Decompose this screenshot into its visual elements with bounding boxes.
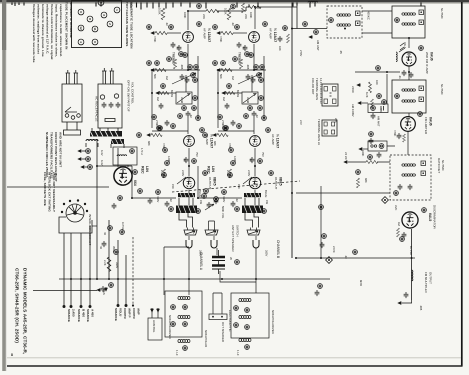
svg-text:VOLU: VOLU bbox=[119, 308, 123, 316]
svg-text:75V: 75V bbox=[195, 152, 199, 157]
tube V1 (12AX7 a) bbox=[183, 32, 194, 43]
svg-text:OUTPUT: OUTPUT bbox=[429, 272, 433, 284]
top cut-off coil bbox=[308, 1, 318, 2]
svg-text:Volume control minimum, no sig: Volume control minimum, no signal bbox=[50, 4, 54, 60]
filament cluster callouts bbox=[78, 149, 92, 170]
T3 top lead bbox=[420, 3, 422, 7]
svg-text:Voltages measured with vacuum: Voltages measured with vacuum tube bbox=[32, 4, 36, 63]
svg-text:capacitance in mfd. unless not: capacitance in mfd. unless noted. bbox=[59, 4, 63, 57]
svg-text:NON-POLAR: NON-POLAR bbox=[204, 330, 208, 347]
svg-text:1 LF: 1 LF bbox=[236, 350, 240, 356]
svg-text:40: 40 bbox=[103, 232, 107, 235]
interlock lead stubs bbox=[64, 122, 81, 135]
arrow bbox=[156, 92, 160, 95]
main tuner bus vertical bbox=[291, 3, 293, 259]
lower callouts bbox=[158, 126, 163, 131]
svg-text:SWITCH: SWITCH bbox=[236, 225, 240, 236]
filter bus vertical bbox=[108, 220, 110, 279]
interstage cap bbox=[184, 157, 189, 163]
svg-text:6: 6 bbox=[79, 11, 83, 13]
svg-text:B 450: B 450 bbox=[82, 309, 86, 317]
svg-text:ELECTROLYTIC: ELECTROLYTIC bbox=[228, 310, 232, 332]
output terminal strip bbox=[209, 314, 227, 320]
svg-text:OFF-ON SW PART OF: OFF-ON SW PART OF bbox=[127, 80, 131, 112]
rectifier callout bbox=[133, 170, 138, 175]
svg-text:SCHEMATIC DIAGRAM: SCHEMATIC DIAGRAM bbox=[69, 2, 73, 38]
cap bbox=[165, 120, 170, 126]
output transformer T1 (dark winding) bbox=[176, 193, 197, 228]
cathode resistor bbox=[162, 169, 165, 178]
grid wire bbox=[185, 75, 187, 92]
schematic right border line bbox=[461, 2, 463, 367]
cathode wire bbox=[187, 44, 189, 70]
notes text block top-left (rotated tiny print) bbox=[32, 4, 63, 63]
svg-text:.02: .02 bbox=[189, 114, 193, 118]
V7 parts bbox=[397, 228, 407, 241]
AVC callouts bbox=[377, 94, 382, 99]
svg-text:FUSE, SOCKETS ARE: FUSE, SOCKETS ARE bbox=[43, 172, 47, 206]
svg-text:270K: 270K bbox=[155, 120, 159, 126]
FM IF amp tube V5 bbox=[402, 52, 416, 66]
svg-text:.005: .005 bbox=[180, 64, 184, 70]
output arrow bbox=[398, 302, 402, 305]
callout 2 bbox=[169, 25, 174, 30]
terminal view box 1 bbox=[322, 84, 338, 106]
svg-text:SCHEMATIC TUBE LOCATION: SCHEMATIC TUBE LOCATION bbox=[130, 2, 134, 49]
antenna squiggle bbox=[399, 43, 405, 52]
stage callout bbox=[200, 128, 205, 133]
svg-text:6AL5: 6AL5 bbox=[428, 213, 432, 221]
svg-text:CONTR: CONTR bbox=[132, 308, 136, 319]
plate riser B bbox=[254, 7, 256, 29]
callout bbox=[179, 52, 184, 57]
svg-text:AM CONV: AM CONV bbox=[351, 104, 355, 117]
rectifier tube bbox=[114, 167, 132, 185]
IF transformer T4 (solid can) bbox=[392, 80, 426, 113]
discriminator tube V7 bbox=[402, 212, 418, 228]
volume pot cluster bbox=[202, 194, 225, 219]
jack A2 bbox=[211, 240, 217, 248]
plate riser A bbox=[187, 11, 189, 30]
svg-text:1: 1 bbox=[115, 9, 119, 11]
svg-text:330V: 330V bbox=[115, 262, 119, 268]
svg-text:SOURCE: SOURCE bbox=[86, 309, 90, 322]
svg-text:22K: 22K bbox=[244, 14, 248, 19]
svg-text:24VC: 24VC bbox=[351, 86, 355, 93]
svg-text:24 VC: 24 VC bbox=[344, 152, 348, 160]
coupling dashes between cans bbox=[362, 11, 392, 33]
limiter parts bbox=[397, 133, 406, 142]
bias adjust box bbox=[148, 318, 162, 340]
output callout bbox=[203, 171, 208, 176]
bass bus wire bbox=[156, 92, 176, 94]
svg-text:24V: 24V bbox=[299, 120, 303, 125]
filter choke box bbox=[113, 147, 137, 165]
svg-text:20: 20 bbox=[229, 257, 233, 261]
electrolytic capacitor (bold) bbox=[212, 250, 225, 274]
right rail bbox=[197, 56, 199, 118]
svg-text:68K: 68K bbox=[147, 141, 151, 146]
AM box arrow bbox=[358, 102, 362, 105]
crossover coils A bbox=[171, 297, 190, 356]
svg-text:50K: 50K bbox=[153, 74, 157, 79]
svg-text:SOURCE: SOURCE bbox=[114, 308, 118, 321]
svg-text:AMP P: AMP P bbox=[128, 308, 132, 317]
receptacle labels bbox=[95, 80, 135, 122]
grid resistor R2 bbox=[155, 31, 167, 34]
ganged volume dashed link bbox=[172, 181, 300, 192]
crossover coils B bbox=[234, 299, 251, 356]
AF takeoff callouts bbox=[322, 234, 327, 239]
svg-text:CONTR: CONTR bbox=[123, 308, 127, 319]
B+ dropping resistor A bbox=[206, 9, 219, 12]
osc box bbox=[368, 141, 387, 151]
svg-text:AMP: AMP bbox=[137, 308, 141, 315]
svg-text:CT66-25R, SH48-25R (CH. 25OD): CT66-25R, SH48-25R (CH. 25OD) bbox=[15, 268, 20, 343]
coupling wire bbox=[152, 130, 188, 132]
crossover box B bbox=[231, 293, 269, 338]
svg-text:CHANNEL B: CHANNEL B bbox=[276, 240, 280, 258]
svg-text:NL/TMC: NL/TMC bbox=[441, 160, 445, 171]
B+ output feed bbox=[97, 165, 132, 167]
plate resistor V1 bbox=[161, 8, 165, 20]
antenna feed wire bbox=[292, 28, 327, 30]
chassis edge wire 1 bbox=[7, 186, 109, 188]
notes block 2 (beside tube box) bbox=[65, 2, 74, 50]
svg-text:120K: 120K bbox=[167, 156, 171, 162]
svg-text:RES: RES bbox=[102, 289, 106, 295]
svg-text:455KC: 455KC bbox=[367, 11, 371, 20]
mid callouts bbox=[163, 148, 168, 153]
MXR callout bbox=[318, 284, 323, 289]
pot wiper slant bbox=[172, 73, 196, 84]
tuner interconnect wires bbox=[387, 66, 409, 155]
V5 callout bbox=[419, 46, 424, 51]
svg-text:22K: 22K bbox=[202, 14, 206, 19]
svg-text:MXR: MXR bbox=[359, 280, 363, 286]
speaker A bbox=[184, 228, 197, 236]
svg-text:AF AMP: AF AMP bbox=[203, 28, 207, 39]
svg-text:RATIO DET: RATIO DET bbox=[437, 158, 441, 173]
svg-text:SOURCE: SOURCE bbox=[67, 309, 71, 322]
svg-text:AVC: AVC bbox=[394, 205, 398, 210]
screen cluster callout bbox=[376, 66, 381, 71]
det resistor bbox=[356, 178, 359, 188]
svg-text:NON-POLARIZED: NON-POLARIZED bbox=[271, 310, 275, 334]
svg-text:8: 8 bbox=[11, 353, 13, 357]
svg-text:LIN: LIN bbox=[145, 166, 149, 172]
AC receptacle body bbox=[98, 68, 122, 128]
loudness box bbox=[176, 92, 192, 104]
svg-text:3.3M: 3.3M bbox=[180, 97, 184, 104]
callout pair below bbox=[182, 106, 187, 111]
svg-text:6AU6: 6AU6 bbox=[429, 117, 433, 126]
svg-text:BASS: BASS bbox=[170, 90, 174, 97]
output coil bbox=[412, 270, 413, 281]
svg-text:DISCRIMINATOR: DISCRIMINATOR bbox=[433, 205, 437, 230]
svg-text:.005: .005 bbox=[419, 305, 423, 311]
speaker B bbox=[247, 228, 260, 236]
coupling caps mid bbox=[180, 74, 185, 80]
coupling caps bbox=[171, 42, 176, 48]
svg-text:B+ PIN: B+ PIN bbox=[409, 246, 413, 255]
svg-text:.02: .02 bbox=[165, 22, 169, 26]
cathode resistor bbox=[366, 160, 378, 163]
callouts bbox=[137, 133, 142, 138]
svg-text:TERMINAL VIEW LU: TERMINAL VIEW LU bbox=[317, 119, 321, 145]
input arrow bbox=[151, 32, 155, 35]
svg-text:470K: 470K bbox=[393, 130, 397, 136]
pot slant in box bbox=[177, 94, 190, 104]
AVC line bbox=[348, 161, 390, 163]
svg-text:150: 150 bbox=[171, 184, 175, 189]
plate wire bbox=[188, 190, 190, 205]
svg-text:SOURCE: SOURCE bbox=[77, 309, 81, 322]
svg-text:4: 4 bbox=[79, 41, 83, 43]
bias box leads bbox=[152, 308, 158, 318]
resistor R5 bbox=[151, 133, 162, 136]
svg-text:voltage maintained at 117 V.A.: voltage maintained at 117 V.A.C. bbox=[46, 4, 50, 54]
interlock plug face bbox=[61, 200, 88, 222]
svg-text:NL/TMC: NL/TMC bbox=[440, 8, 444, 19]
psu value labels bbox=[99, 150, 125, 268]
det feed wire bbox=[296, 192, 390, 194]
tube chart right-side caption bbox=[125, 2, 134, 49]
scan border: left gray strip bbox=[2, 0, 6, 371]
supply wire labels bbox=[114, 308, 141, 321]
crossover box A bbox=[165, 291, 202, 337]
resistor R3 bbox=[155, 68, 166, 71]
svg-text:117VAC: 117VAC bbox=[121, 222, 125, 232]
output cap bbox=[404, 292, 409, 298]
B plate resistor extra bbox=[241, 3, 244, 13]
choke callout bbox=[130, 149, 135, 154]
paired bus stub bbox=[296, 3, 298, 29]
svg-text:68K: 68K bbox=[364, 178, 368, 183]
svg-text:AND ARE NOT IN UNIT: AND ARE NOT IN UNIT bbox=[59, 132, 63, 167]
svg-text:.01: .01 bbox=[398, 75, 402, 79]
svg-text:ANT EXT SPEAKER: ANT EXT SPEAKER bbox=[231, 225, 235, 252]
screen resistor bbox=[369, 82, 372, 93]
svg-text:2.2M: 2.2M bbox=[160, 170, 164, 177]
AVC resistor bbox=[371, 99, 374, 108]
power transformer primary (dark winding) bbox=[90, 131, 122, 137]
svg-text:A 450: A 450 bbox=[91, 309, 95, 317]
transformer lead wires bbox=[86, 128, 124, 148]
svg-text:6BK5: 6BK5 bbox=[213, 177, 217, 186]
tube location chart box bbox=[72, 1, 122, 48]
svg-text:VOL CONTROL: VOL CONTROL bbox=[131, 82, 135, 104]
IF can to FM IF wire bbox=[408, 38, 410, 48]
svg-text:470K: 470K bbox=[153, 36, 157, 42]
callouts row bbox=[147, 61, 152, 66]
left rail bbox=[151, 70, 153, 128]
svg-text:2,450: 2,450 bbox=[72, 309, 76, 317]
svg-text:input. Resistance values in oh: input. Resistance values in ohms, bbox=[55, 4, 59, 57]
svg-text:12: 12 bbox=[79, 26, 83, 30]
tuner value labels bbox=[299, 50, 423, 311]
svg-text:6.3V: 6.3V bbox=[100, 150, 104, 156]
test point diamond 1 bbox=[382, 197, 389, 204]
screen arrow bbox=[357, 84, 361, 87]
svg-text:AM ANT: AM ANT bbox=[316, 40, 320, 51]
svg-text:FM LIMITER: FM LIMITER bbox=[424, 117, 428, 135]
feed callouts bbox=[197, 4, 202, 9]
svg-text:9: 9 bbox=[93, 41, 97, 43]
decouple cluster bbox=[278, 26, 290, 51]
stage callout bbox=[197, 22, 202, 27]
wire to grid bbox=[167, 32, 181, 34]
bias slant bbox=[177, 177, 186, 184]
svg-text:100K: 100K bbox=[158, 8, 162, 15]
model title (rotated, bold) bbox=[15, 268, 28, 354]
svg-text:3: 3 bbox=[102, 14, 106, 16]
screen callout 2 bbox=[368, 155, 373, 160]
svg-text:.05: .05 bbox=[339, 50, 343, 54]
svg-text:11: 11 bbox=[93, 27, 97, 31]
svg-text:10K: 10K bbox=[278, 46, 282, 51]
wire between tubes bbox=[188, 148, 190, 176]
svg-text:8.2K: 8.2K bbox=[365, 92, 369, 98]
osc callout bbox=[369, 132, 374, 137]
svg-text:25OD NOT NECESSARILY: 25OD NOT NECESSARILY bbox=[52, 172, 56, 213]
svg-text:2: 2 bbox=[108, 23, 112, 25]
svg-text:470K: 470K bbox=[162, 143, 166, 149]
callout 1 bbox=[147, 25, 152, 30]
svg-text:240V: 240V bbox=[181, 170, 185, 176]
callout bbox=[161, 84, 166, 89]
svg-text:NL/TMC: NL/TMC bbox=[440, 84, 444, 95]
return callout bbox=[319, 205, 324, 210]
svg-text:430V: 430V bbox=[156, 196, 160, 202]
det output vertical bbox=[411, 229, 413, 300]
svg-text:5: 5 bbox=[99, 2, 103, 4]
converter arrow bbox=[309, 36, 313, 39]
svg-text:22K: 22K bbox=[334, 118, 338, 123]
svg-text:6X4: 6X4 bbox=[133, 180, 137, 186]
arrow bbox=[151, 69, 155, 72]
feed components bbox=[138, 189, 143, 194]
svg-text:.02: .02 bbox=[169, 198, 173, 202]
FM limiter tube V6 bbox=[401, 117, 416, 132]
svg-text:AA-4: AA-4 bbox=[403, 42, 407, 49]
svg-text:1W: 1W bbox=[247, 4, 251, 8]
bias resistor cluster bbox=[102, 287, 107, 295]
top edge cut-off tick marks bbox=[12, 3, 421, 10]
svg-text:350V: 350V bbox=[112, 246, 116, 252]
svg-text:OUT SPEAKER: OUT SPEAKER bbox=[221, 322, 225, 342]
feed wire bbox=[132, 197, 176, 199]
AVC arrow bbox=[344, 161, 348, 164]
coupling wire to driver bbox=[187, 117, 189, 134]
power lead labels bbox=[67, 309, 95, 322]
svg-text:AM ANT: AM ANT bbox=[377, 116, 381, 127]
svg-text:NON-POLARIZED: NON-POLARIZED bbox=[168, 315, 172, 339]
svg-text:40: 40 bbox=[99, 246, 103, 249]
svg-text:.02: .02 bbox=[183, 158, 187, 162]
terminal view box 2 bbox=[322, 120, 337, 136]
AF takeoff cap bbox=[320, 242, 325, 248]
svg-text:AC RECEPTACLE: AC RECEPTACLE bbox=[95, 96, 99, 122]
power lead wires descending bbox=[63, 226, 91, 308]
svg-text:.01: .01 bbox=[176, 46, 180, 50]
V5 bypass caps bbox=[402, 70, 407, 76]
transformer secondary dark block bbox=[111, 139, 124, 144]
svg-text:47K: 47K bbox=[379, 108, 383, 113]
value labels bbox=[147, 12, 203, 204]
lower left rail bbox=[131, 166, 133, 198]
decoupling cap bbox=[165, 201, 170, 207]
callout right of box bbox=[193, 96, 198, 101]
svg-text:½ 12AX7: ½ 12AX7 bbox=[210, 134, 214, 148]
svg-text:.02: .02 bbox=[344, 255, 348, 259]
interlock plug housing bbox=[59, 217, 92, 233]
svg-text:6.3V: 6.3V bbox=[100, 160, 104, 166]
svg-text:100K: 100K bbox=[183, 12, 187, 18]
tube chart callouts bbox=[78, 0, 120, 45]
supply wires right group bbox=[117, 240, 127, 307]
jack A bbox=[186, 240, 192, 248]
svg-text:2ND FM IF AMP: 2ND FM IF AMP bbox=[425, 52, 429, 74]
osc box arrow bbox=[359, 148, 363, 151]
B+ top feed wire bbox=[188, 7, 297, 11]
channel B return vertical bbox=[320, 186, 322, 258]
transformer callouts bbox=[196, 209, 201, 214]
B+ bus vertical bbox=[96, 140, 98, 279]
scan border: top dark strip bbox=[0, 0, 469, 2]
ratio detector dashed can bbox=[390, 155, 431, 200]
svg-text:HUM BAL: HUM BAL bbox=[152, 320, 156, 333]
svg-text:6AU6: 6AU6 bbox=[430, 52, 434, 61]
screen wire bbox=[355, 71, 400, 73]
svg-text:100K: 100K bbox=[361, 150, 365, 156]
V6 callout bbox=[418, 112, 423, 117]
svg-text:DYNAMIC MODELS A45-25R, CT36-R: DYNAMIC MODELS A45-25R, CT36-R, bbox=[23, 268, 28, 354]
AF out line bbox=[296, 257, 415, 259]
bias box arrows bbox=[151, 308, 154, 312]
svg-text:100: 100 bbox=[375, 80, 379, 85]
cluster callouts bbox=[191, 73, 196, 78]
treble pot resistor bbox=[173, 59, 176, 69]
svg-text:14,15,L10,L11 & L12: 14,15,L10,L11 & L12 bbox=[319, 78, 323, 104]
speaker A2 bbox=[205, 228, 218, 236]
svg-text:voltmeter, readings from socke: voltmeter, readings from socket bbox=[37, 4, 41, 54]
chassis edge wire 2 bbox=[33, 290, 97, 292]
left margin service notes bbox=[45, 132, 63, 182]
B+ dropping resistor B bbox=[248, 5, 261, 8]
det cluster callout bbox=[356, 170, 361, 175]
tube V2 (12AX7 b) bbox=[184, 136, 195, 147]
svg-text:½ 12AX7: ½ 12AX7 bbox=[207, 28, 211, 42]
resistor R4 bbox=[159, 91, 169, 94]
jack B bbox=[253, 240, 259, 248]
tone bus wire bbox=[151, 69, 200, 71]
transformer secondary coil bbox=[86, 140, 98, 142]
bias dashed vertical bbox=[132, 237, 134, 305]
svg-text:8: 8 bbox=[88, 18, 92, 20]
svg-text:TOP CHASSIS VIEW SHOWS: TOP CHASSIS VIEW SHOWS bbox=[125, 2, 129, 46]
schematic bottom border line bbox=[7, 365, 462, 367]
svg-text:TUBE PLACEMENT SHOWN IN: TUBE PLACEMENT SHOWN IN bbox=[65, 2, 69, 50]
svg-text:1 LF: 1 LF bbox=[175, 350, 179, 356]
test point diamond 2 bbox=[326, 257, 333, 264]
osc cap bbox=[369, 138, 374, 144]
cap below box bbox=[186, 111, 191, 117]
IF transformer T3 (solid can) bbox=[392, 6, 425, 38]
grid stopper arrow bbox=[147, 134, 151, 137]
svg-text:INTERLOCK CKT RATING: INTERLOCK CKT RATING bbox=[48, 172, 52, 212]
rectifier feed wires bbox=[118, 148, 128, 167]
